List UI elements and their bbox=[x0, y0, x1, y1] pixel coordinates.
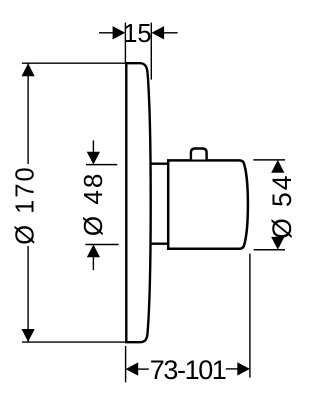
knob top button bbox=[191, 149, 207, 160]
dim 15: right extension line bbox=[150, 23, 152, 80]
sleeve bottom line bbox=[151, 242, 168, 244]
dim O48: upper stem bbox=[92, 140, 94, 155]
dim O54: upper arrowhead bbox=[271, 160, 284, 173]
dim 73-101: left arrow tail bbox=[137, 368, 149, 370]
dim O170: bottom arrowhead bbox=[22, 329, 35, 342]
dim O54: upper tick bbox=[253, 159, 285, 161]
dim O48: lower stem bbox=[92, 254, 94, 270]
dim O170: bottom extension line bbox=[22, 341, 126, 343]
dim 15: right arrowhead bbox=[152, 26, 165, 39]
dim 73-101: left arrowhead bbox=[126, 362, 139, 375]
svg-text:Ø 170: Ø 170 bbox=[12, 165, 40, 244]
dim O54: lower arrowhead bbox=[271, 237, 284, 250]
dim 15: left extension line bbox=[124, 23, 126, 62]
svg-text:73-101: 73-101 bbox=[150, 355, 226, 385]
dim 73-101: right arrowhead bbox=[237, 362, 250, 375]
svg-text:Ø 54: Ø 54 bbox=[267, 173, 297, 238]
dim O170: top extension line bbox=[22, 62, 126, 64]
svg-text:15: 15 bbox=[123, 20, 151, 48]
dim 15: left arrow tail bbox=[99, 32, 114, 34]
svg-text:Ø 48: Ø 48 bbox=[78, 172, 108, 236]
escutcheon plate bbox=[126, 63, 150, 342]
sleeve top line bbox=[151, 162, 168, 164]
dim 73-101: left extension line bbox=[125, 346, 127, 382]
dim O48: lower tick bbox=[85, 244, 118, 246]
dim 15: right arrow tail bbox=[163, 32, 178, 34]
dim O170: top arrowhead bbox=[22, 63, 35, 76]
dim O48: upper tick bbox=[86, 164, 117, 166]
dim 73-101: right arrow tail bbox=[226, 368, 239, 370]
dim O48: lower arrowhead bbox=[87, 245, 100, 258]
dim 15: left arrowhead bbox=[113, 26, 126, 39]
dim O170: dimension line upper segment bbox=[27, 63, 29, 164]
dim O48: upper arrowhead bbox=[87, 152, 100, 165]
dim O170: dimension line lower segment bbox=[27, 246, 29, 342]
dim O54: lower tick bbox=[254, 249, 285, 251]
knob body bbox=[168, 160, 248, 248]
dim 73-101: right extension line bbox=[249, 254, 251, 378]
